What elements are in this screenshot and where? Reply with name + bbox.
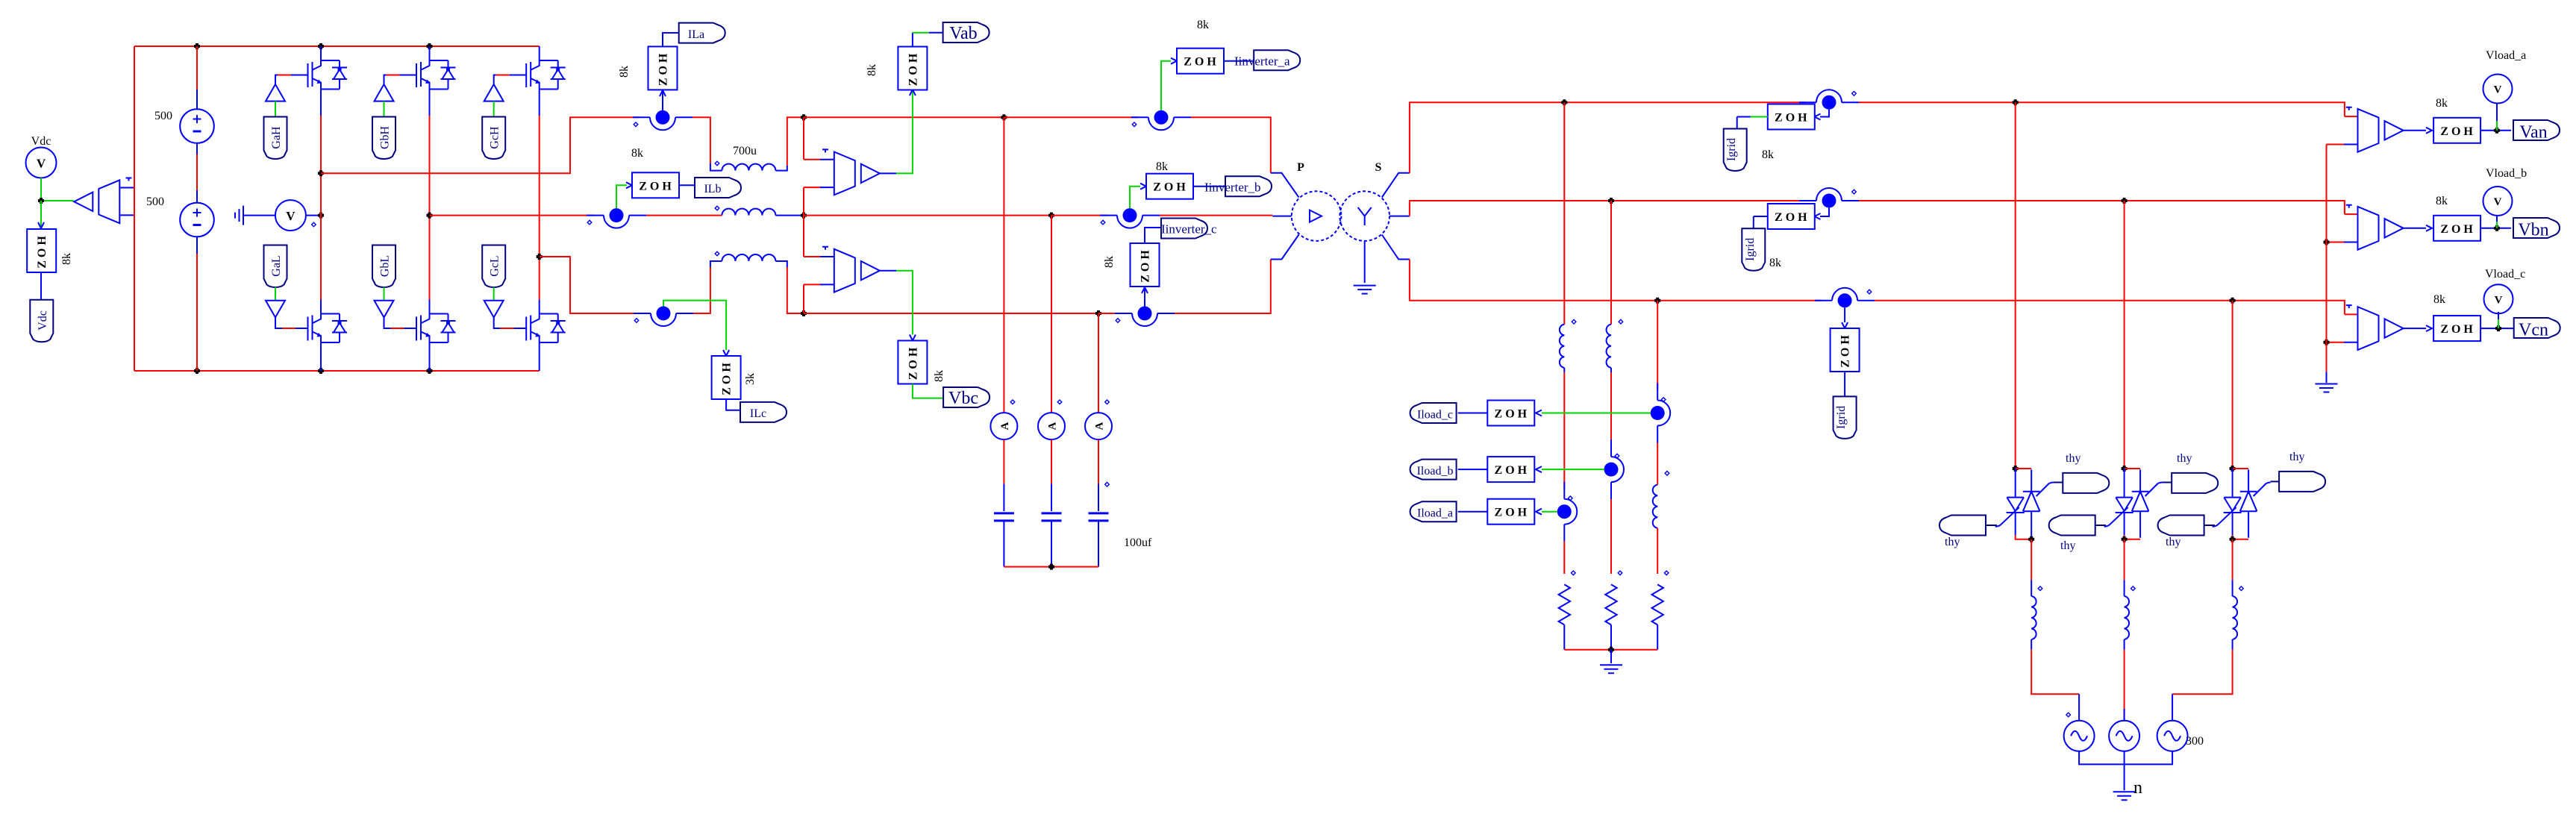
node (2324, 339, 2330, 345)
svg-text:GaH: GaH (270, 126, 283, 149)
wire (1003, 439, 1004, 483)
svg-text:S: S (1375, 161, 1382, 174)
thyristor pair 3 (2213, 469, 2271, 538)
voltmeter Vdc (26, 148, 57, 178)
gate driver GbL triangle (375, 301, 394, 318)
inductor thy b (2125, 596, 2129, 639)
capacitor Cc (1089, 513, 1109, 521)
thyristor pair 2 (2104, 469, 2163, 538)
wire (2345, 213, 2358, 215)
wire (804, 313, 1098, 314)
inductor La 700u (722, 164, 775, 171)
node (2324, 240, 2330, 245)
node (194, 368, 200, 374)
label Iinverter_a (1254, 50, 1300, 70)
svg-text:8k: 8k (2436, 195, 2448, 207)
wire (2496, 222, 2498, 228)
node (2013, 99, 2019, 105)
svg-text:8k: 8k (2433, 293, 2445, 306)
wire (2480, 328, 2514, 329)
svg-text:Vdc: Vdc (37, 310, 49, 331)
svg-text:thy: thy (2289, 451, 2304, 463)
svg-text:500: 500 (146, 195, 164, 208)
svg-text:Igrid: Igrid (1725, 138, 1738, 161)
wire neutral bus (2326, 145, 2328, 372)
wire (2124, 639, 2125, 650)
label Igrid c (1833, 396, 1857, 439)
label Iinverter_c (1161, 219, 1207, 239)
label Van (2513, 120, 2560, 140)
wire bottom rail (134, 370, 540, 372)
svg-text:n: n (2133, 778, 2142, 798)
svg-text:Iload_c: Iload_c (1417, 409, 1453, 422)
svg-text:thy: thy (2177, 452, 2192, 465)
wire (320, 345, 322, 372)
node (1095, 310, 1101, 316)
wire load bus (1564, 649, 1657, 651)
sensor Iinverter_a ball (1131, 110, 1191, 131)
op-amp Vbc sensor (834, 249, 880, 292)
wire (40, 272, 42, 300)
sensor Igrid_c ball (1815, 288, 1875, 308)
node (2122, 198, 2128, 204)
wye neutral wire (1364, 241, 1366, 283)
green to ZOH Iinverter_b (1130, 187, 1140, 208)
label thy 2R (2172, 473, 2218, 493)
gate driver GaL triangle (266, 301, 285, 318)
node (1608, 647, 1614, 653)
wire (2233, 535, 2249, 539)
transistor QaH (295, 46, 347, 91)
node (427, 368, 433, 374)
label ILb (695, 178, 741, 198)
wire cap bus (1004, 566, 1098, 568)
label thy 1R (2063, 473, 2109, 493)
wire (2124, 539, 2125, 580)
wire (196, 143, 198, 154)
wire (493, 287, 495, 301)
wire (384, 101, 385, 117)
wire (2480, 130, 2511, 131)
gate wire QcL (494, 317, 501, 328)
ZOH Vbc (898, 341, 927, 384)
ZOH Vload_b (2433, 216, 2480, 241)
ZOH ILc (712, 356, 741, 399)
label Vbn (2513, 218, 2560, 238)
wire (1754, 216, 1768, 228)
wire (1859, 201, 2345, 214)
svg-text:ILc: ILc (750, 407, 766, 420)
node phase-C (537, 254, 543, 260)
wire green c (1542, 413, 1651, 414)
wire cap leg b (1051, 216, 1052, 413)
node (318, 368, 324, 374)
node (2230, 466, 2236, 472)
wire top rail (134, 46, 540, 47)
wire (384, 287, 385, 301)
ammeter A2 (1038, 413, 1065, 439)
node (318, 43, 324, 49)
ZOH Vdc block (27, 229, 56, 272)
node (2122, 536, 2128, 542)
node (318, 213, 324, 219)
inductor thy c (2233, 596, 2237, 639)
svg-text:ILa: ILa (688, 28, 704, 41)
wire (320, 91, 322, 116)
op-amp U-vdc gain (74, 180, 119, 223)
node (194, 43, 200, 49)
label Vab (943, 22, 990, 43)
svg-text:GcH: GcH (489, 126, 501, 149)
ZOH Iload_b (1487, 457, 1534, 482)
wire (2016, 535, 2032, 539)
wire (726, 399, 740, 410)
svg-text:thy: thy (1945, 536, 1960, 548)
wire (2232, 301, 2233, 469)
node (2122, 466, 2128, 472)
label thy 3L (2158, 516, 2204, 536)
wire (275, 101, 276, 117)
resistor load a (1559, 584, 1570, 625)
label Igrid b (1742, 228, 1765, 271)
wire (1657, 443, 1658, 485)
wire (1610, 368, 1612, 372)
wire (1610, 625, 1612, 649)
transistor QbL (404, 300, 456, 345)
node (2494, 128, 2500, 134)
wire (913, 384, 943, 398)
sensor Iload_a ball (1557, 482, 1578, 542)
wire cap leg a (1003, 117, 1004, 413)
wire (1051, 521, 1052, 567)
wire (1175, 260, 1271, 314)
wire (2345, 313, 2358, 315)
svg-text:3k: 3k (744, 373, 757, 385)
label ILc (740, 402, 787, 422)
wire to ZOH (1820, 208, 1829, 217)
transformer pins secondary (1382, 173, 1410, 198)
wire (2404, 328, 2426, 329)
wire (1003, 521, 1004, 567)
svg-text:Iinverter_a: Iinverter_a (1234, 54, 1290, 69)
svg-text:100uf: 100uf (1124, 536, 1152, 549)
gate wire QcH (494, 75, 496, 85)
node (1048, 213, 1054, 219)
svg-text:8k: 8k (1156, 160, 1168, 173)
ZOH Vload_a (2433, 118, 2480, 143)
node (2230, 536, 2236, 542)
green to ZOH ILc (663, 301, 726, 350)
wire (493, 101, 495, 117)
ammeter A3 (1085, 413, 1112, 439)
wire (1145, 228, 1161, 243)
node (2494, 225, 2500, 231)
wire (540, 257, 640, 313)
inductor Lb (722, 209, 775, 216)
node (1561, 99, 1567, 105)
svg-text:Vcn: Vcn (2519, 321, 2548, 340)
wire (880, 172, 896, 174)
wire source bus (2079, 751, 2172, 764)
ZOH Vload_c (2433, 316, 2480, 341)
inductor load c (1653, 485, 1657, 528)
svg-text:Van: Van (2519, 123, 2547, 143)
wire (1751, 116, 1768, 118)
node (801, 213, 807, 219)
transformer pins primary (1271, 173, 1299, 198)
svg-text:8k: 8k (1762, 148, 1774, 161)
svg-text:Iload_b: Iload_b (1417, 465, 1454, 478)
svg-text:Vload_c: Vload_c (2485, 268, 2525, 281)
svg-text:Iinverter_b: Iinverter_b (1204, 181, 1261, 195)
sensor ILc ball (634, 307, 693, 327)
wire (1657, 528, 1658, 574)
inductor thy a (2031, 596, 2036, 639)
wire (2496, 121, 2498, 131)
inductor load a (1560, 325, 1564, 368)
wire (1410, 201, 1806, 216)
wire (2015, 102, 2016, 469)
ground (235, 206, 243, 225)
wire (1224, 60, 1254, 62)
wire cap leg c (1098, 313, 1099, 413)
wire (1051, 439, 1052, 483)
ZOH inverter_a (1177, 48, 1224, 74)
node phase-A (318, 170, 324, 176)
svg-text:P: P (1297, 161, 1304, 174)
wire (119, 188, 134, 216)
node (801, 114, 807, 120)
label Iload_c (1410, 403, 1457, 423)
svg-text:8k: 8k (1103, 256, 1116, 268)
wire (1610, 201, 1612, 325)
gate wire QbL (384, 317, 391, 328)
node phase-B (427, 213, 433, 219)
wire (912, 33, 913, 47)
wire (430, 215, 594, 216)
wire (1563, 625, 1565, 649)
svg-text:8k: 8k (618, 66, 631, 78)
wire (306, 215, 321, 216)
sensor ILb ball (587, 208, 646, 228)
node (2495, 325, 2501, 331)
wire (804, 215, 1051, 216)
label GaL (264, 245, 287, 288)
wire (1657, 301, 1658, 390)
sensor Iload_c ball (1651, 384, 1671, 443)
wire (243, 215, 275, 216)
label thy 2L (2049, 516, 2095, 536)
svg-text:Vbn: Vbn (2518, 221, 2548, 240)
inductor load b (1607, 325, 1611, 368)
ZOH ILb (632, 172, 679, 198)
label Vdc tag (30, 300, 53, 342)
svg-text:Vload_a: Vload_a (2486, 49, 2526, 62)
wire (321, 117, 640, 173)
label GbL (372, 245, 396, 288)
node marker (126, 178, 132, 181)
wire (2016, 468, 2032, 469)
wire (1098, 439, 1099, 483)
wire (429, 91, 431, 116)
svg-text:thy: thy (2066, 452, 2081, 465)
label Iinverter_b (1225, 176, 1272, 196)
label GbH (372, 117, 396, 160)
wire (2125, 468, 2141, 469)
green to ZOH ILb (616, 185, 627, 208)
wire (1458, 469, 1488, 470)
ZOH Iload_c (1487, 401, 1534, 426)
svg-text:8k: 8k (1197, 19, 1209, 31)
wire (1193, 186, 1225, 187)
ZOH Igrid_a (1768, 104, 1815, 130)
node (1001, 114, 1007, 120)
sensor Igrid_b ball (1799, 188, 1859, 208)
wire (1844, 372, 1845, 396)
ground neutral (2316, 384, 2338, 392)
node (427, 43, 433, 49)
wire (2232, 580, 2233, 596)
resistor load b (1605, 584, 1616, 625)
wire (662, 91, 663, 110)
sensor Iload_b ball (1604, 439, 1625, 499)
label GcH (482, 117, 505, 160)
node (1608, 198, 1614, 204)
wire (1458, 413, 1488, 414)
wire (2326, 372, 2328, 383)
wire (679, 184, 695, 186)
wire (1563, 542, 1565, 574)
sensor Iinverter_b ball (1100, 208, 1160, 228)
wire (663, 33, 679, 46)
wire (803, 117, 804, 159)
node (1654, 298, 1660, 304)
wire (2232, 539, 2233, 580)
wire to ZOH (1820, 110, 1829, 117)
svg-text:700u: 700u (733, 145, 757, 157)
wire left rail (134, 46, 135, 371)
wire to ZOH (1844, 307, 1845, 322)
wire green a (1542, 511, 1557, 513)
wire (1563, 102, 1565, 325)
svg-text:8k: 8k (1769, 257, 1781, 269)
transistor QaL (295, 300, 347, 345)
wire (646, 215, 722, 216)
svg-text:8k: 8k (866, 64, 878, 76)
ZOH inverter_b (1146, 174, 1193, 199)
svg-text:Iload_a: Iload_a (1417, 507, 1453, 520)
label Vcn (2514, 318, 2560, 338)
transistor QcH (513, 46, 566, 91)
label GaH (264, 117, 287, 160)
wire (2031, 539, 2032, 580)
gate wire QaH (275, 75, 278, 85)
transistor QbH (404, 46, 456, 91)
wire (1098, 313, 1122, 314)
svg-text:Vbc: Vbc (948, 389, 978, 408)
label Vbc (943, 387, 990, 407)
wire green to ZOH (1161, 61, 1171, 110)
svg-text:500: 500 (154, 110, 172, 122)
label thy 1L (1939, 516, 1986, 536)
svg-text:Vload_b: Vload_b (2486, 167, 2527, 180)
wire (40, 201, 42, 226)
source Vsb (2109, 721, 2139, 751)
node (2230, 298, 2236, 304)
gate driver GbH triangle (375, 84, 394, 101)
wire (1410, 102, 1806, 173)
svg-text:8k: 8k (631, 147, 643, 160)
sensor Iinverter_c ball (1115, 307, 1175, 327)
wire (1410, 260, 1822, 301)
wire (40, 178, 42, 201)
svg-text:300: 300 (2186, 735, 2204, 748)
wire (1458, 511, 1488, 513)
wire (2031, 639, 2032, 650)
ZOH ILa (648, 46, 678, 90)
wire (539, 345, 540, 372)
svg-text:GbL: GbL (379, 255, 392, 277)
svg-text:8k: 8k (60, 253, 73, 265)
node Vdc-junction (38, 198, 44, 204)
ZOH inverter_c (1131, 243, 1160, 287)
source Vsa (2064, 721, 2095, 751)
svg-text:Igrid: Igrid (1744, 238, 1757, 261)
wire (1610, 650, 1612, 663)
wire (693, 267, 710, 313)
source V1 500 (180, 109, 214, 143)
svg-text:Iinverter_c: Iinverter_c (1161, 222, 1217, 237)
blue to ZOH Iinverter_c (1144, 288, 1145, 307)
node (2028, 536, 2034, 542)
wire (1051, 215, 1107, 216)
op-amp Vab sensor (834, 152, 880, 195)
gate wire QbH (384, 75, 387, 85)
wire (2233, 468, 2249, 469)
wire (1563, 368, 1565, 372)
wire neutral pin (2327, 242, 2345, 243)
wire (41, 200, 74, 201)
ZOH Igrid_b (1768, 204, 1815, 229)
wire (1098, 521, 1099, 567)
wire (2498, 319, 2499, 328)
node (1048, 564, 1054, 570)
op-amp Vload_b sensor (2358, 207, 2404, 250)
wire (2404, 130, 2426, 131)
transformer primary circle (1292, 191, 1342, 241)
svg-text:Vab: Vab (949, 24, 977, 43)
wire (880, 270, 896, 272)
wire neutral pin (2327, 144, 2345, 145)
gate driver GaH triangle (266, 84, 285, 101)
label Igrid a (1724, 129, 1747, 172)
wire (2345, 116, 2358, 117)
wire (1875, 301, 2345, 315)
ammeter A1 (990, 413, 1017, 439)
wire (2232, 639, 2233, 650)
label ILa (679, 23, 725, 43)
transistor QcL (513, 300, 566, 345)
svg-text:8k: 8k (2436, 97, 2448, 110)
wire (196, 237, 198, 254)
wire (2124, 751, 2125, 790)
voltmeter mid (275, 200, 306, 231)
svg-text:thy: thy (2060, 539, 2075, 552)
wire (196, 46, 198, 90)
wire (1191, 117, 1271, 173)
ground wye (1354, 286, 1376, 294)
op-amp Vload_c sensor (2358, 307, 2404, 350)
